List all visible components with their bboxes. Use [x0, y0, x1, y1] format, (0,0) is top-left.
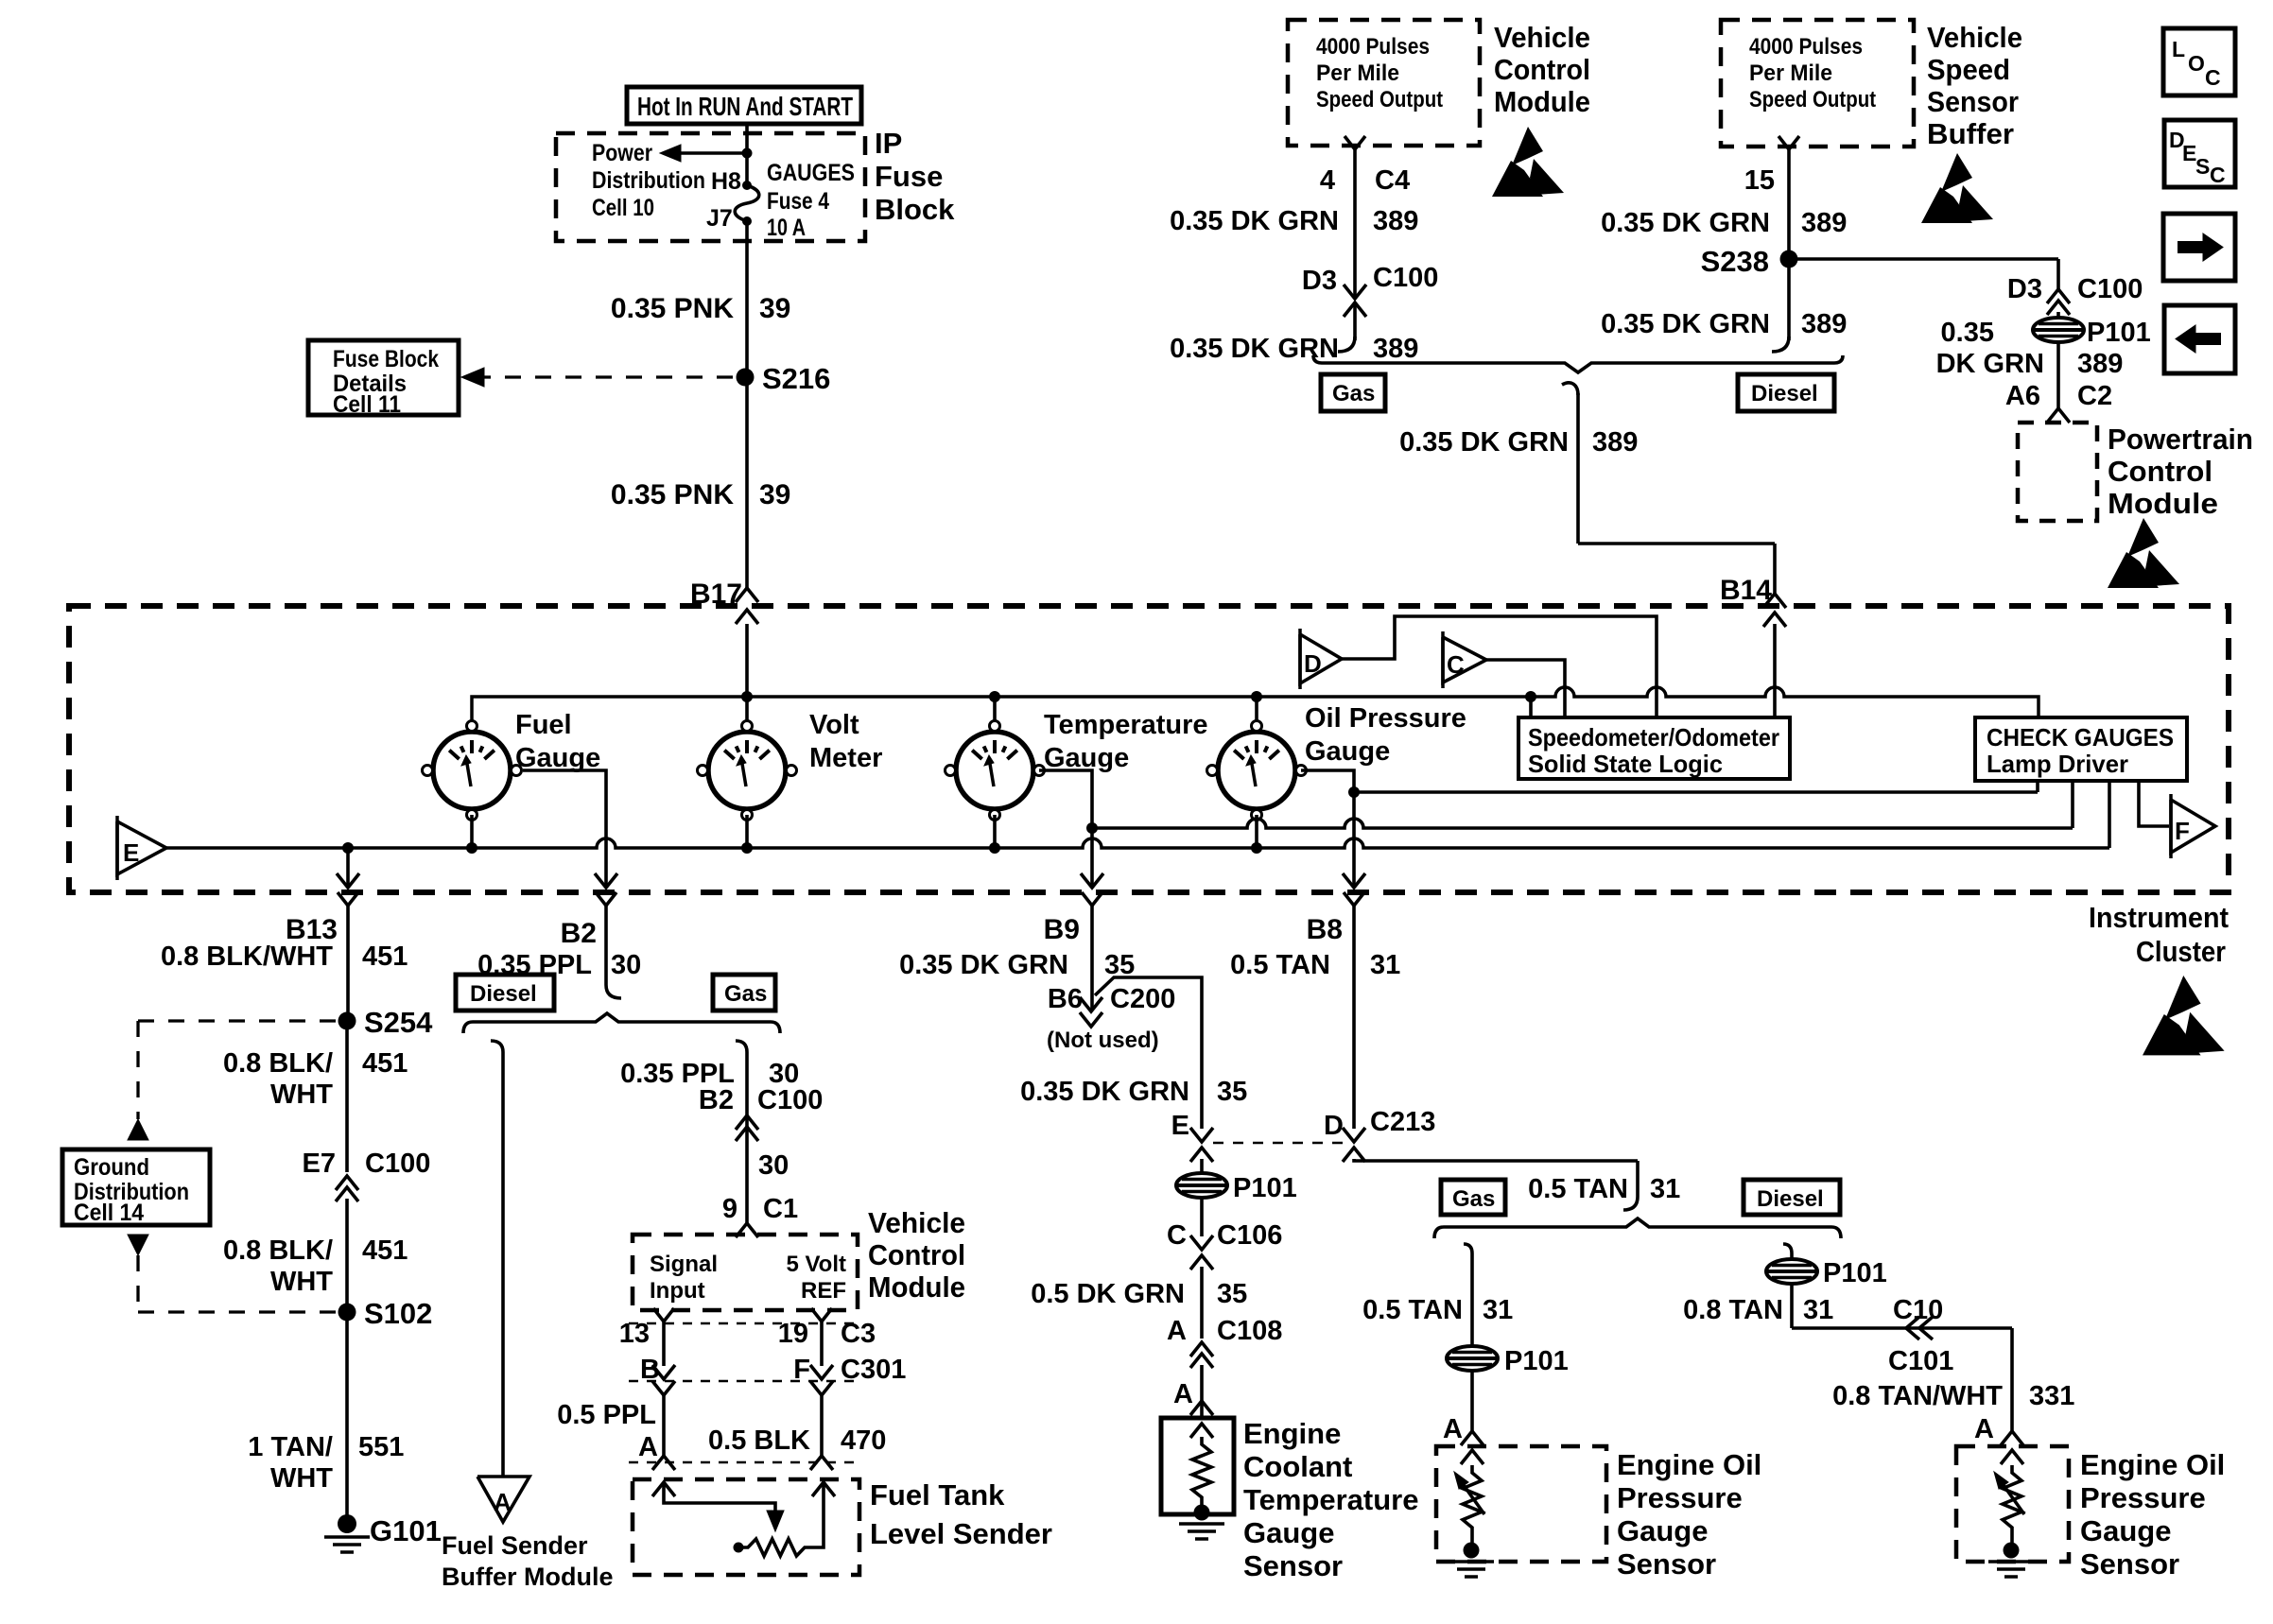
svg-text:Fuel Sender: Fuel Sender: [442, 1531, 588, 1560]
svg-text:389: 389: [1801, 309, 1847, 339]
svg-text:Instrument: Instrument: [2089, 901, 2229, 934]
svg-text:F: F: [793, 1355, 810, 1385]
svg-text:Module: Module: [1494, 85, 1590, 118]
ESD symbol instrument cluster: [2165, 976, 2201, 1020]
buffer D: [1300, 634, 1342, 683]
splice S216: [737, 369, 755, 387]
svg-text:31: 31: [1803, 1295, 1833, 1325]
wire fuel gauge ground: [470, 815, 474, 848]
wire pin19 to C301: [820, 1328, 824, 1366]
legend box prev-arrow: [2164, 305, 2235, 373]
triangle E output: [117, 821, 166, 874]
speedometer/odometer logic box: [1518, 717, 1790, 779]
svg-text:Fuel: Fuel: [515, 710, 572, 740]
svg-text:Oil Pressure: Oil Pressure: [1305, 703, 1466, 734]
node bus fuel: [466, 842, 477, 854]
wire 389 diesel segment: [1787, 156, 1791, 340]
svg-text:Gauge: Gauge: [1305, 736, 1390, 767]
buffer C: [1443, 637, 1486, 682]
wire D to speedometer: [1342, 616, 1657, 717]
svg-text:Gas: Gas: [724, 981, 767, 1007]
svg-text:Module: Module: [868, 1270, 965, 1304]
wire volt meter ground: [745, 815, 749, 848]
label box Hot In RUN And START: [627, 87, 861, 124]
svg-text:(Not used): (Not used): [1047, 1028, 1159, 1053]
svg-text:C200: C200: [1110, 984, 1175, 1014]
brace diesel/gas fuel sender: [463, 1013, 780, 1033]
svg-text:15: 15: [1744, 165, 1775, 196]
wire 31 to split: [1354, 1159, 1638, 1161]
wire end hook gas: [1338, 337, 1355, 352]
connector line C213: [1213, 1142, 1343, 1145]
grommet P101 (top right): [2033, 318, 2084, 342]
svg-text:C106: C106: [1217, 1220, 1282, 1251]
tag box Gas (top): [1321, 374, 1385, 411]
svg-text:Block: Block: [875, 193, 955, 226]
wire sense bus E: [166, 838, 2109, 848]
svg-text:30: 30: [758, 1150, 789, 1181]
svg-text:O: O: [2188, 51, 2205, 76]
connector B9: [1082, 892, 1102, 906]
svg-text:0.8 BLK/: 0.8 BLK/: [223, 1048, 333, 1079]
svg-text:0.35: 0.35: [1941, 318, 1994, 348]
svg-text:WHT: WHT: [270, 1080, 333, 1110]
svg-text:Engine Oil: Engine Oil: [1617, 1448, 1761, 1481]
connector C4 fork: [1345, 136, 1365, 149]
svg-text:S216: S216: [762, 362, 830, 395]
node bus B13: [342, 842, 354, 854]
svg-text:Lamp Driver: Lamp Driver: [1987, 750, 2128, 778]
svg-text:Speed: Speed: [1927, 53, 2010, 86]
wire 35 segment 1: [1090, 912, 1094, 1010]
svg-text:470: 470: [841, 1425, 886, 1456]
wire 331 segment: [2010, 1328, 2014, 1433]
wire diesel oil to C10: [1790, 1283, 1794, 1328]
ref box Ground Distribution Cell 14: [62, 1149, 210, 1225]
svg-text:E7: E7: [303, 1149, 336, 1179]
diesel oil sensor resistor: [2001, 1450, 2023, 1464]
wire gauge supply bus: [472, 687, 2039, 721]
PCM dashed box: [2018, 423, 2097, 521]
wire diesel oil branch: [1783, 1244, 1792, 1253]
wire 39 PNK segment 1: [745, 225, 749, 377]
svg-text:Engine Oil: Engine Oil: [2080, 1448, 2225, 1481]
svg-text:Per Mile: Per Mile: [1749, 60, 1832, 86]
wire 451 segment 3: [345, 1199, 349, 1312]
connector pin 15 fork: [1778, 136, 1799, 149]
svg-text:Sensor: Sensor: [2080, 1547, 2179, 1581]
svg-text:C2: C2: [2077, 381, 2112, 411]
svg-text:C101: C101: [1888, 1346, 1953, 1376]
svg-text:B9: B9: [1044, 914, 1080, 945]
svg-text:389: 389: [1373, 334, 1418, 364]
svg-text:0.8 TAN: 0.8 TAN: [1683, 1295, 1783, 1325]
svg-text:C108: C108: [1217, 1316, 1282, 1346]
triangle F output: [2171, 800, 2215, 853]
ESD symbol VCM: [1512, 127, 1543, 165]
connector line C301: [629, 1380, 856, 1383]
wire lamp driver to F: [2139, 781, 2169, 826]
wire fuel signal to B2: [523, 770, 606, 887]
temperature gauge: [956, 732, 1033, 809]
svg-text:Gauge: Gauge: [1617, 1514, 1708, 1547]
wire 389 combined: [1562, 383, 1578, 395]
svg-text:C301: C301: [841, 1355, 906, 1385]
svg-text:35: 35: [1217, 1077, 1247, 1107]
wire 451 segment 2: [345, 1021, 349, 1172]
wire oil signal to B8: [1301, 770, 1354, 887]
svg-text:Volt: Volt: [809, 710, 859, 740]
ESD symbol PCM: [2127, 518, 2159, 557]
legend box DESC: [2164, 120, 2235, 187]
wire 389 to C2: [2056, 341, 2060, 408]
tag box Gas (fuel): [713, 975, 775, 1011]
svg-text:C: C: [2210, 163, 2226, 187]
svg-text:C4: C4: [1375, 165, 1410, 196]
Instrument Cluster dashed boundary: [69, 606, 2229, 892]
svg-text:Buffer: Buffer: [1927, 117, 2014, 150]
svg-text:D: D: [1304, 649, 1322, 678]
wire 551 segment: [345, 1312, 349, 1522]
svg-text:B14: B14: [1720, 575, 1772, 606]
svg-text:Gauge: Gauge: [1243, 1516, 1334, 1549]
connector B2: [596, 892, 616, 906]
svg-text:Vehicle: Vehicle: [1494, 21, 1590, 54]
wire 30 PPL stub: [604, 912, 608, 985]
gas oil sensor resistor: [1461, 1450, 1484, 1464]
svg-text:389: 389: [1592, 427, 1638, 458]
IP Fuse Block dashed box: [556, 133, 865, 241]
svg-text:J7: J7: [706, 205, 733, 232]
svg-text:Ground: Ground: [74, 1154, 149, 1181]
svg-text:0.35 PNK: 0.35 PNK: [611, 293, 734, 324]
wire temp gauge ground: [993, 815, 997, 848]
svg-text:Diesel: Diesel: [1751, 381, 1818, 406]
svg-text:331: 331: [2029, 1381, 2074, 1411]
wire 389 to P101: [2056, 312, 2060, 319]
vehicle control module dashed box: [633, 1235, 858, 1310]
svg-text:0.35 DK GRN: 0.35 DK GRN: [1170, 206, 1339, 236]
volt meter: [708, 732, 786, 809]
svg-text:Powertrain: Powertrain: [2108, 423, 2253, 456]
engine coolant temperature gauge sensor box: [1161, 1418, 1234, 1514]
node bus volt: [741, 842, 753, 854]
svg-text:5 Volt: 5 Volt: [786, 1252, 846, 1277]
svg-text:Speedometer/Odometer: Speedometer/Odometer: [1528, 723, 1779, 752]
wire temp sense to lamp driver: [1092, 819, 2073, 828]
svg-text:P101: P101: [1233, 1173, 1297, 1203]
VCM 4000 pulses dashed box: [1288, 20, 1480, 146]
svg-text:10 A: 10 A: [767, 215, 806, 241]
svg-text:31: 31: [1370, 950, 1400, 980]
wire B17 to volt meter: [745, 624, 749, 721]
svg-text:GAUGES: GAUGES: [767, 160, 855, 186]
svg-text:L: L: [2172, 37, 2185, 61]
wire 35 jog: [1095, 977, 1202, 1129]
svg-text:B6: B6: [1048, 984, 1083, 1014]
svg-text:S102: S102: [364, 1297, 432, 1330]
arrow to power distribution: [673, 151, 747, 155]
grommet P101 (diesel oil): [1766, 1259, 1817, 1284]
svg-text:C3: C3: [841, 1319, 876, 1349]
connector pin 13 fork: [653, 1308, 674, 1322]
wire 0.5 BLK segment: [810, 1381, 833, 1395]
svg-text:B8: B8: [1307, 914, 1343, 945]
svg-text:Sensor: Sensor: [1617, 1547, 1716, 1581]
connector B8: [1344, 892, 1364, 906]
wire 35 to P101: [1200, 1159, 1204, 1174]
brace gas/diesel oil sensor: [1434, 1218, 1841, 1238]
svg-text:DK GRN: DK GRN: [1936, 349, 2044, 379]
svg-text:Hot In RUN And START: Hot In RUN And START: [637, 92, 853, 121]
connector line C3: [629, 1322, 856, 1325]
svg-text:0.8 BLK/WHT: 0.8 BLK/WHT: [161, 942, 333, 972]
svg-text:F: F: [2175, 817, 2190, 845]
svg-text:0.35 DK GRN: 0.35 DK GRN: [1399, 427, 1569, 458]
svg-text:Fuel Tank: Fuel Tank: [870, 1478, 1005, 1512]
node bus/oil feed: [1251, 691, 1262, 702]
splice S102: [338, 1304, 356, 1322]
svg-text:S254: S254: [364, 1006, 433, 1039]
svg-text:B2: B2: [699, 1085, 734, 1115]
svg-text:Cell 10: Cell 10: [592, 195, 654, 221]
svg-text:Control: Control: [2108, 455, 2212, 488]
svg-text:B2: B2: [561, 918, 597, 949]
svg-text:C1: C1: [763, 1194, 798, 1224]
node bus oil: [1251, 842, 1262, 854]
svg-text:19: 19: [778, 1319, 808, 1349]
svg-text:Meter: Meter: [809, 743, 882, 773]
svg-text:35: 35: [1217, 1279, 1247, 1309]
svg-text:Engine: Engine: [1243, 1417, 1341, 1450]
connector pin 19 fork: [811, 1308, 832, 1322]
tag box Diesel (fuel): [456, 975, 554, 1011]
dashed link ground distribution to S102: [128, 1235, 148, 1255]
svg-text:0.35 DK GRN: 0.35 DK GRN: [1020, 1077, 1189, 1107]
wire fuse feed: [745, 124, 749, 185]
svg-text:Gas: Gas: [1452, 1186, 1495, 1212]
svg-text:Per Mile: Per Mile: [1316, 60, 1399, 86]
wire gas oil to sensor: [1470, 1370, 1474, 1433]
dashed link S254 to ground distribution: [138, 1019, 336, 1022]
wire S238 to PCM: [1789, 257, 2058, 261]
svg-text:Gauge: Gauge: [2080, 1514, 2171, 1547]
brace gas/diesel speed outputs: [1313, 355, 1843, 372]
wire 0.5 PPL segment: [652, 1381, 675, 1395]
svg-text:A: A: [638, 1432, 658, 1462]
svg-text:S: S: [2195, 154, 2210, 179]
svg-text:0.5 TAN: 0.5 TAN: [1362, 1295, 1463, 1325]
svg-text:0.5 BLK: 0.5 BLK: [708, 1425, 810, 1456]
svg-text:0.8 BLK/: 0.8 BLK/: [223, 1235, 333, 1266]
svg-text:H8: H8: [711, 168, 741, 195]
coolant sensor resistor: [1190, 1424, 1213, 1438]
engine oil pressure gauge sensor box (diesel): [1956, 1446, 2069, 1562]
svg-text:Fuse Block: Fuse Block: [333, 346, 439, 372]
svg-text:E: E: [1171, 1111, 1189, 1141]
svg-text:Buffer Module: Buffer Module: [442, 1563, 614, 1591]
tag box Diesel (oil): [1744, 1180, 1840, 1215]
wire 39 PNK segment 2: [745, 377, 749, 588]
svg-text:Control: Control: [1494, 53, 1590, 86]
svg-text:Sensor: Sensor: [1927, 85, 2019, 118]
wire gas fuel signal branch: [736, 1041, 747, 1052]
svg-text:0.35 DK GRN: 0.35 DK GRN: [1601, 309, 1770, 339]
svg-text:A: A: [1443, 1414, 1463, 1444]
node temp signal / lamp line: [1086, 822, 1098, 834]
legend box LOC: [2163, 28, 2235, 95]
svg-text:39: 39: [759, 293, 790, 324]
VSSB 4000 pulses dashed box: [1721, 20, 1914, 147]
svg-text:C: C: [1167, 1220, 1187, 1251]
dashed reference arrow to fuse block details: [475, 375, 737, 378]
fuel sender buffer module triangle: [477, 1477, 529, 1522]
svg-text:Sensor: Sensor: [1243, 1549, 1343, 1582]
svg-text:Pressure: Pressure: [2080, 1481, 2206, 1514]
svg-text:Distribution: Distribution: [592, 167, 705, 194]
ground G101: [338, 1514, 356, 1533]
svg-text:C100: C100: [2077, 274, 2143, 304]
svg-text:Fuse 4: Fuse 4: [767, 188, 829, 215]
svg-text:B: B: [640, 1355, 660, 1385]
wire 389 gas segment: [1353, 156, 1357, 280]
svg-text:9: 9: [722, 1194, 737, 1224]
wire fuel sender buffer branch: [491, 1041, 503, 1052]
svg-text:C10: C10: [1893, 1295, 1943, 1325]
svg-text:Cell 14: Cell 14: [74, 1200, 144, 1226]
wire to coolant sensor: [1200, 1365, 1204, 1418]
svg-text:Diesel: Diesel: [470, 981, 537, 1007]
svg-text:389: 389: [2077, 349, 2123, 379]
svg-text:C: C: [1447, 650, 1465, 679]
svg-text:451: 451: [362, 1235, 408, 1266]
svg-text:A: A: [1173, 1379, 1193, 1409]
wire temp signal to B9: [1039, 770, 1092, 887]
node power distribution tap: [742, 148, 753, 159]
svg-text:G101: G101: [370, 1514, 442, 1547]
svg-text:C100: C100: [757, 1085, 823, 1115]
wire oil gauge ground: [1255, 815, 1258, 848]
sender wiper arm: [652, 1482, 675, 1496]
svg-text:31: 31: [1650, 1174, 1680, 1204]
svg-text:4000 Pulses: 4000 Pulses: [1749, 34, 1863, 60]
svg-text:39: 39: [759, 479, 790, 510]
svg-text:A6: A6: [2005, 381, 2040, 411]
svg-text:P101: P101: [2087, 318, 2151, 348]
svg-text:451: 451: [362, 1048, 408, 1079]
svg-text:0.5 PPL: 0.5 PPL: [557, 1400, 656, 1430]
wire 35 to C106: [1200, 1197, 1204, 1236]
svg-text:Module: Module: [2108, 487, 2218, 520]
ref box Fuse Block Details Cell 11: [308, 340, 459, 415]
wire gas oil branch: [1464, 1244, 1472, 1253]
svg-text:551: 551: [358, 1432, 404, 1462]
node bus/temp feed: [989, 691, 1000, 702]
svg-text:C100: C100: [365, 1149, 430, 1179]
svg-text:Speed Output: Speed Output: [1316, 87, 1443, 112]
svg-text:Level Sender: Level Sender: [870, 1517, 1052, 1550]
svg-text:13: 13: [619, 1319, 650, 1349]
svg-text:Control: Control: [868, 1238, 965, 1271]
grommet P101 (coolant): [1176, 1173, 1227, 1198]
svg-text:Cluster: Cluster: [2136, 935, 2226, 968]
svg-text:31: 31: [1483, 1295, 1513, 1325]
fuse F4 GAUGES 10A: [742, 181, 752, 190]
wire C to speedometer: [1486, 660, 1565, 717]
svg-text:0.5 TAN: 0.5 TAN: [1230, 950, 1330, 980]
fuel gauge: [433, 732, 511, 809]
svg-text:Temperature: Temperature: [1044, 710, 1208, 740]
wire pin13 to C301: [662, 1328, 666, 1366]
wire 451 segment 1: [346, 912, 350, 1021]
svg-text:IP: IP: [875, 127, 902, 160]
svg-text:451: 451: [362, 942, 408, 972]
svg-text:389: 389: [1801, 208, 1847, 238]
svg-text:0.35 DK GRN: 0.35 DK GRN: [899, 950, 1068, 980]
svg-text:Cell 11: Cell 11: [333, 391, 401, 418]
connector line sender: [629, 1461, 856, 1464]
svg-text:0.35 PNK: 0.35 PNK: [611, 479, 734, 510]
svg-text:S238: S238: [1701, 245, 1769, 278]
svg-text:Solid State Logic: Solid State Logic: [1528, 750, 1723, 778]
tag box Diesel (top): [1738, 374, 1834, 411]
check gauges lamp driver box: [1975, 717, 2187, 781]
svg-text:Power: Power: [592, 140, 652, 166]
connector B13: [346, 848, 350, 887]
node bus/speedo feed: [1525, 691, 1536, 702]
svg-text:Signal: Signal: [650, 1252, 718, 1277]
splice S254: [338, 1012, 356, 1030]
svg-text:389: 389: [1373, 206, 1418, 236]
sender resistor: [734, 1543, 744, 1553]
node bus/volt feed: [741, 691, 753, 702]
engine oil pressure gauge sensor box (gas): [1436, 1446, 1606, 1562]
svg-text:Input: Input: [650, 1278, 705, 1304]
svg-text:4: 4: [1320, 165, 1335, 196]
wire 0.5 DK GRN segment: [1200, 1267, 1204, 1339]
node oil signal / lamp line: [1348, 786, 1360, 798]
wire oil sense to lamp driver: [1354, 790, 2038, 794]
svg-text:D3: D3: [2007, 274, 2042, 304]
svg-text:P101: P101: [1823, 1258, 1887, 1288]
svg-text:1 TAN/: 1 TAN/: [248, 1432, 333, 1462]
svg-text:4000 Pulses: 4000 Pulses: [1316, 34, 1430, 60]
svg-text:Temperature: Temperature: [1243, 1483, 1419, 1516]
svg-text:WHT: WHT: [270, 1267, 333, 1297]
fuel tank level sender dashed box: [633, 1479, 859, 1575]
wire B14 to speedometer: [1773, 624, 1777, 717]
ESD symbol VSSB: [1941, 153, 1972, 192]
svg-text:A: A: [1167, 1316, 1187, 1346]
svg-text:C213: C213: [1370, 1107, 1435, 1137]
svg-text:A: A: [494, 1488, 512, 1516]
svg-text:0.35 DK GRN: 0.35 DK GRN: [1601, 208, 1770, 238]
tag box Gas (oil): [1441, 1180, 1505, 1215]
svg-text:A: A: [1974, 1414, 1994, 1444]
svg-text:C100: C100: [1373, 263, 1438, 293]
svg-text:CHECK GAUGES: CHECK GAUGES: [1987, 723, 2174, 752]
svg-text:P101: P101: [1504, 1346, 1569, 1376]
svg-text:Vehicle: Vehicle: [868, 1206, 965, 1239]
svg-text:Vehicle: Vehicle: [1927, 21, 2022, 54]
svg-text:D3: D3: [1302, 266, 1337, 296]
svg-text:Gas: Gas: [1332, 381, 1375, 406]
grommet P101 (gas oil): [1447, 1346, 1498, 1371]
svg-text:C: C: [2205, 65, 2221, 90]
svg-text:WHT: WHT: [270, 1463, 333, 1494]
wire 31 segment 1: [1352, 912, 1356, 1129]
svg-text:REF: REF: [801, 1278, 846, 1304]
